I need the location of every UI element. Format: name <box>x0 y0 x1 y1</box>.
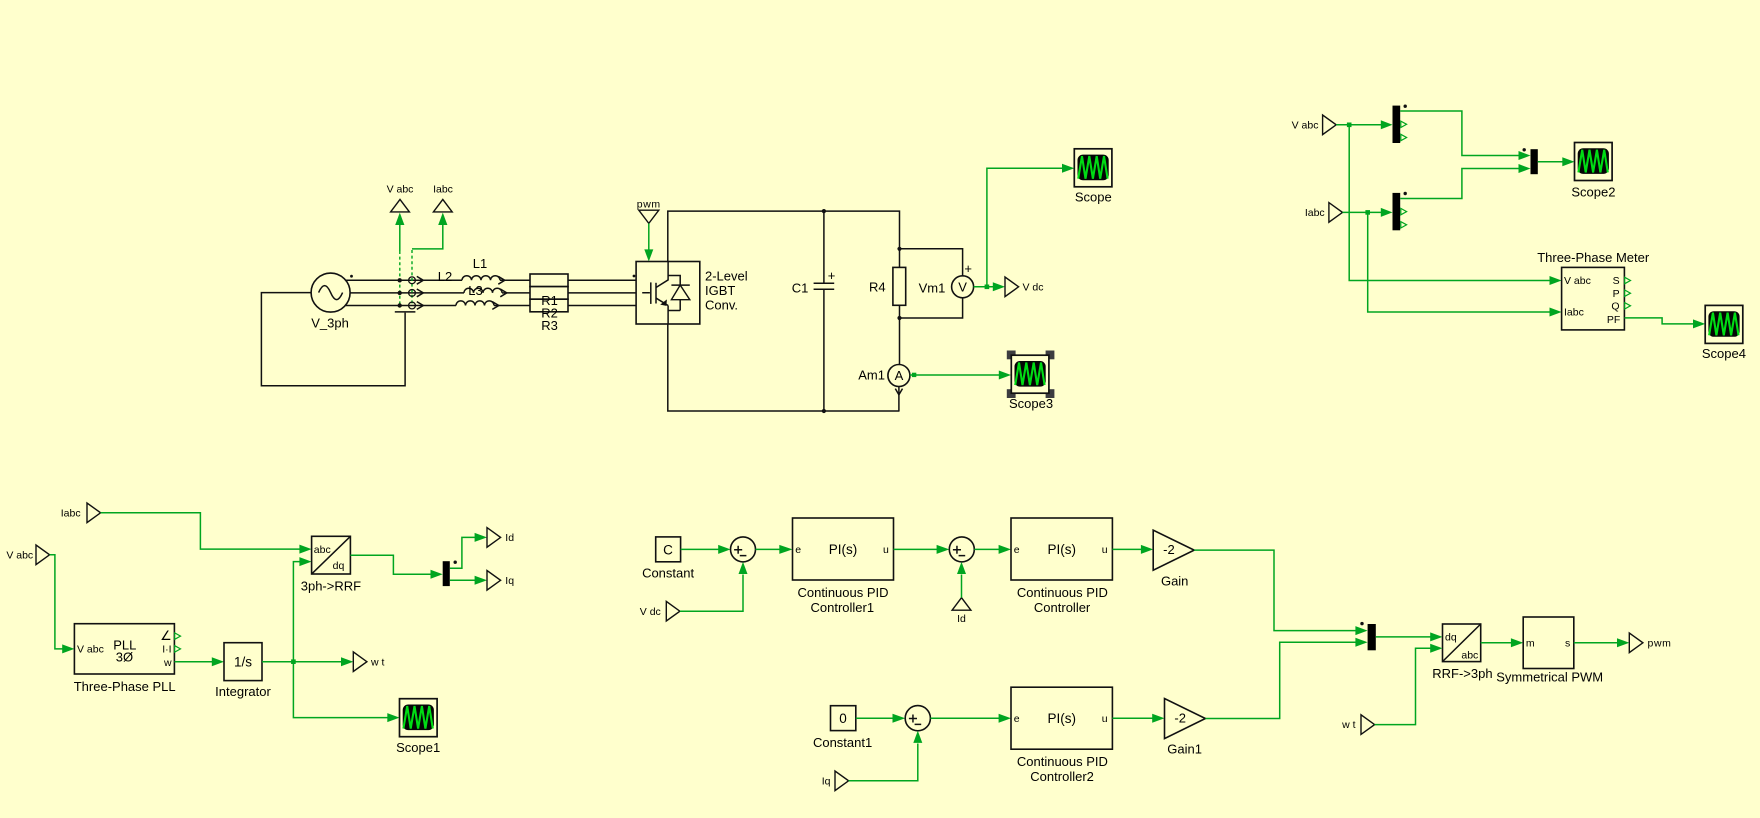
wire wt node up to 3ph->RRF <box>293 562 300 662</box>
junction C1 bottom <box>822 409 826 413</box>
from tag Iq <box>835 771 849 791</box>
svg-text:0: 0 <box>839 711 847 726</box>
svg-text:Scope3: Scope3 <box>1009 396 1053 411</box>
svg-text:Controller2: Controller2 <box>1030 769 1094 784</box>
wire phase c <box>346 305 636 307</box>
svg-text:Conv.: Conv. <box>705 298 738 313</box>
wire phase a <box>346 279 636 281</box>
current measurement rings <box>409 277 416 309</box>
svg-text:-2: -2 <box>1163 542 1175 557</box>
subsystem Three-Phase PLL <box>74 624 180 674</box>
demux1 (V abc) <box>1393 105 1407 144</box>
svg-text:Iq: Iq <box>505 575 514 587</box>
wire Symmetrical PWM to pwm tag <box>1574 642 1618 644</box>
wire demux4 to Id <box>450 537 475 568</box>
svg-text:Integrator: Integrator <box>215 684 271 699</box>
junction dots voltage measurement taps <box>398 278 402 282</box>
svg-text:V abc: V abc <box>387 184 414 196</box>
wire DC bus top <box>668 211 900 267</box>
wire wt node down to Scope1 <box>293 662 387 718</box>
wire Constant to sum1 <box>681 548 719 550</box>
svg-text:I·I: I·I <box>162 644 171 656</box>
resistor block R1 R2 R3 <box>530 274 568 312</box>
block 3ph->RRF <box>312 536 351 574</box>
svg-text:Gain: Gain <box>1161 574 1188 589</box>
svg-text:PI(s): PI(s) <box>1047 542 1076 557</box>
resistor R4 <box>893 267 906 364</box>
wire Iabc down to meter <box>1368 212 1551 312</box>
wire V abc to PLL <box>50 555 63 649</box>
svg-text:Three-Phase PLL: Three-Phase PLL <box>74 679 176 694</box>
svg-text:V abc: V abc <box>6 549 33 561</box>
wire Gain to mux5 <box>1194 550 1356 631</box>
node phase-a marker at converter <box>633 275 636 278</box>
wire Id to sum2 <box>961 575 963 598</box>
wire 3ph->RRF out to demux4 <box>350 555 431 574</box>
svg-text:Symmetrical PWM: Symmetrical PWM <box>1496 669 1603 684</box>
junction green Vdc node <box>985 285 990 290</box>
sum block sum2 <box>949 537 974 562</box>
arrowhead up to Iabc tag <box>438 213 447 225</box>
goto tag V dc <box>1005 277 1019 297</box>
current direction arrows <box>417 276 424 309</box>
wire Iabc to 3ph->RRF <box>101 513 300 549</box>
svg-text:L3: L3 <box>468 283 482 298</box>
svg-text:pwm: pwm <box>1648 637 1672 649</box>
svg-text:Iq: Iq <box>822 775 831 787</box>
goto tag V abc <box>391 199 410 212</box>
svg-text:L2: L2 <box>438 269 452 284</box>
gain block Gain1 (-2) <box>1165 699 1206 739</box>
goto tag pwm <box>1629 633 1643 653</box>
junction wt node <box>291 659 296 664</box>
wire Am1 to bus with direction arrow <box>898 387 900 412</box>
svg-text:Three-Phase Meter: Three-Phase Meter <box>1537 250 1650 265</box>
junction R4 bottom <box>897 316 901 320</box>
svg-text:Continuous PID: Continuous PID <box>1017 585 1108 600</box>
svg-text:Gain1: Gain1 <box>1167 742 1202 757</box>
svg-text:Continuous PID: Continuous PID <box>797 585 888 600</box>
mux3 (scope mux) <box>1523 148 1538 174</box>
block Symmetrical PWM <box>1523 617 1574 669</box>
mux5 (dq mux) <box>1360 622 1375 650</box>
block Constant1 (0) <box>831 706 856 731</box>
svg-text:Controller: Controller <box>1034 600 1091 615</box>
svg-text:Iabc: Iabc <box>1564 307 1584 319</box>
scope Scope4 <box>1705 305 1743 343</box>
svg-text:Constant: Constant <box>642 566 694 581</box>
wire green Vdc node to Scope <box>987 168 1063 287</box>
wire RRF->3ph to Symmetrical PWM <box>1481 642 1512 644</box>
from tag pwm (pointing down) <box>639 210 659 223</box>
sum block sum3 <box>905 706 930 731</box>
svg-text:RRF->3ph: RRF->3ph <box>1432 666 1492 681</box>
wire Integrator out to w t tag <box>262 661 342 663</box>
svg-text:L1: L1 <box>473 256 487 271</box>
ground neutral bar <box>395 311 416 313</box>
goto tag Id <box>487 528 501 548</box>
scope Scope2 <box>1575 143 1613 181</box>
svg-text:1/s: 1/s <box>234 654 252 669</box>
svg-text:V abc: V abc <box>1564 275 1591 287</box>
svg-text:∠: ∠ <box>160 628 172 643</box>
svg-text:Scope4: Scope4 <box>1702 346 1746 361</box>
gain block Gain (-2) <box>1153 530 1194 570</box>
block Continuous PID Controller <box>1011 518 1112 580</box>
wire Vm1 parallel connection <box>900 249 963 318</box>
svg-text:Continuous PID: Continuous PID <box>1017 754 1108 769</box>
svg-text:3Ø: 3Ø <box>116 650 133 665</box>
wire green Am1 to Scope3 <box>910 374 1000 376</box>
svg-text:C1: C1 <box>792 280 809 295</box>
wire PID to Gain <box>1112 548 1141 550</box>
diode antiparallel inside converter <box>671 285 689 310</box>
wire V_3ph left lead and return loop <box>261 293 405 386</box>
svg-text:V abc: V abc <box>1292 119 1319 131</box>
wire sum2 to PID <box>974 548 999 550</box>
wire w t to RRF->3ph <box>1375 648 1431 724</box>
block Integrator <box>224 643 262 681</box>
svg-text:+: + <box>828 268 836 283</box>
svg-text:V dc: V dc <box>1023 281 1044 293</box>
wire sum1 to PID1 <box>756 548 781 550</box>
wire PID1 to sum2 <box>894 548 938 550</box>
svg-text:V: V <box>958 279 967 294</box>
converter block 2-Level IGBT Conv. <box>636 262 700 325</box>
demux4 (Id Iq) <box>443 561 457 587</box>
svg-text:Constant1: Constant1 <box>813 735 872 750</box>
block Constant C <box>656 537 681 562</box>
svg-text:Scope2: Scope2 <box>1571 184 1615 199</box>
wire meter PF to Scope4 <box>1624 318 1694 324</box>
scope Scope <box>1074 149 1112 187</box>
svg-text:m: m <box>1526 637 1535 649</box>
svg-text:e: e <box>795 544 801 556</box>
svg-text:2-Level: 2-Level <box>705 269 748 284</box>
svg-text:Scope: Scope <box>1075 190 1112 205</box>
wire mux3 to Scope2 <box>1538 161 1563 163</box>
junction Iabc node <box>1365 210 1370 215</box>
block Continuous PID Controller2 <box>1011 687 1112 749</box>
wire green Iabc measurement <box>412 224 443 249</box>
wire green V abc measurement <box>399 224 401 252</box>
svg-text:3ph->RRF: 3ph->RRF <box>301 578 361 593</box>
svg-text:dq: dq <box>333 560 345 572</box>
svg-text:IGBT: IGBT <box>705 283 735 298</box>
svg-text:pwm: pwm <box>637 199 661 211</box>
svg-text:Iabc: Iabc <box>1305 207 1325 219</box>
subsystem Three-Phase Meter <box>1562 267 1631 330</box>
svg-text:Id: Id <box>505 532 514 544</box>
junction C1 top <box>822 209 826 213</box>
svg-text:Vm1: Vm1 <box>919 280 946 295</box>
svg-text:Id: Id <box>957 613 966 625</box>
wire green Vm1 to V dc tag <box>974 286 994 288</box>
svg-text:w t: w t <box>370 656 385 668</box>
wire sum3 to PID2 <box>930 717 999 719</box>
svg-text:V_3ph: V_3ph <box>311 316 349 331</box>
wire green pwm gate drive <box>648 223 650 250</box>
svg-text:Am1: Am1 <box>858 367 885 382</box>
svg-text:u: u <box>1102 713 1108 725</box>
svg-text:V dc: V dc <box>640 606 661 618</box>
svg-text:R4: R4 <box>869 280 886 295</box>
scope Scope1 <box>400 699 438 737</box>
from tag V abc (PLL) <box>36 545 50 565</box>
wire phase b <box>350 292 636 294</box>
wire Gain1 to mux5 <box>1205 642 1356 718</box>
capacitor C1 <box>814 211 835 411</box>
inductor L2 <box>456 301 494 306</box>
svg-text:PI(s): PI(s) <box>829 542 858 557</box>
wire PLL w to Integrator <box>174 661 212 663</box>
demux2 (Iabc) <box>1393 192 1407 230</box>
svg-text:w t: w t <box>1341 719 1356 731</box>
svg-text:Iabc: Iabc <box>61 507 81 519</box>
wire demux4 to Iq <box>450 579 475 581</box>
transistor IGBT symbol inside converter <box>642 262 680 325</box>
block RRF->3ph <box>1443 624 1481 662</box>
wire V abc to demux1 <box>1336 124 1382 126</box>
svg-text:e: e <box>1014 713 1020 725</box>
svg-text:R3: R3 <box>541 318 558 333</box>
svg-text:s: s <box>1565 637 1570 649</box>
wire PID2 to Gain1 <box>1112 717 1153 719</box>
svg-text:P: P <box>1613 288 1620 300</box>
junction R4 top <box>897 247 901 251</box>
node phase-a marker dot at source <box>350 275 353 278</box>
wire mux5 to RRF->3ph <box>1376 636 1431 638</box>
svg-text:-2: -2 <box>1174 711 1186 726</box>
goto tag w t <box>353 652 367 672</box>
wire V abc down to meter <box>1349 125 1550 281</box>
ammeter Am1 <box>888 365 910 387</box>
junction Vabc node <box>1347 123 1352 128</box>
svg-text:u: u <box>1102 544 1108 556</box>
wire V dc to sum1 <box>680 575 743 612</box>
wire Constant1 to sum3 <box>856 717 893 719</box>
wire demux1 out to mux3 <box>1400 111 1519 156</box>
svg-text:+: + <box>964 261 972 276</box>
goto tag Iabc <box>433 199 452 212</box>
from tag V abc <box>1323 115 1337 135</box>
svg-text:e: e <box>1014 544 1020 556</box>
svg-text:Q: Q <box>1611 300 1619 312</box>
svg-text:u: u <box>883 544 889 556</box>
wire Iq to sum3 <box>849 744 918 781</box>
inductor L1 <box>462 276 500 281</box>
voltmeter Vm1 <box>952 276 974 298</box>
scope Scope3 (selected with handles) <box>1007 351 1055 399</box>
svg-text:S: S <box>1613 275 1620 287</box>
from tag Iabc <box>1329 203 1343 223</box>
svg-text:Scope1: Scope1 <box>396 740 440 755</box>
from tag Iabc (PLL) <box>87 503 101 523</box>
svg-text:Iabc: Iabc <box>433 184 453 196</box>
svg-text:V abc: V abc <box>77 643 104 655</box>
sum block sum1 <box>731 537 756 562</box>
from tag V dc <box>666 601 680 621</box>
voltage source V_3ph <box>311 273 350 312</box>
arrowhead up to V abc tag <box>395 213 404 225</box>
wire DC bus bottom <box>668 324 900 411</box>
svg-text:Controller1: Controller1 <box>811 600 875 615</box>
svg-text:PI(s): PI(s) <box>1047 711 1076 726</box>
wire Iabc to demux2 <box>1343 211 1383 213</box>
svg-text:dq: dq <box>1445 632 1457 644</box>
svg-text:abc: abc <box>314 544 331 556</box>
svg-text:PF: PF <box>1607 314 1620 326</box>
from tag Id (pointing up) <box>952 598 971 611</box>
svg-text:w: w <box>163 657 172 669</box>
inductor L3 <box>464 288 502 293</box>
svg-text:C: C <box>663 543 673 558</box>
svg-text:A: A <box>895 368 904 383</box>
goto tag Iq <box>487 571 501 591</box>
svg-text:abc: abc <box>1461 650 1478 662</box>
block Continuous PID Controller1 <box>793 518 894 580</box>
from tag w t <box>1361 715 1375 735</box>
wire demux2 out to mux3 <box>1400 169 1519 199</box>
